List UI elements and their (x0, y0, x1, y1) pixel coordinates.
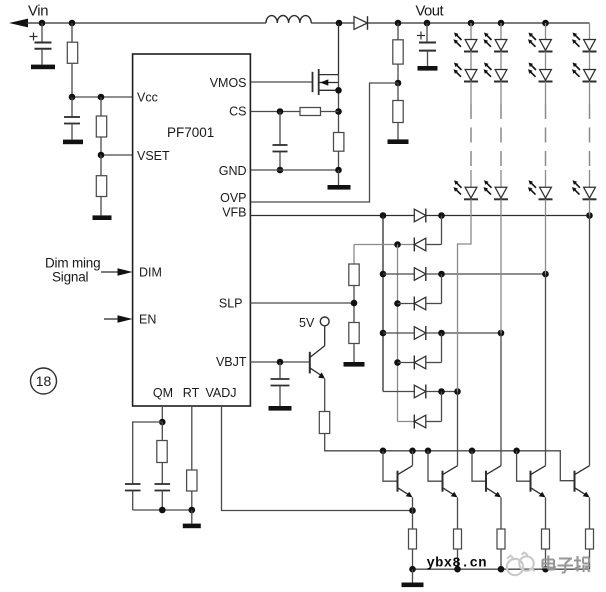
junction VADJ emitter (409, 507, 416, 514)
wire row3 (383, 273, 414, 275)
junction source (335, 87, 342, 94)
junction rail col3 (542, 20, 549, 27)
wire Vin rail (42, 22, 266, 24)
ground emitter bus (402, 569, 424, 587)
svg-text:Signal: Signal (52, 270, 89, 285)
junction VFB col4 (586, 212, 593, 219)
diode D2 (414, 209, 426, 223)
junction D6 out (438, 330, 445, 337)
wire row7 (383, 391, 414, 393)
resistor R13e (586, 497, 594, 569)
svg-text:Dim ming: Dim ming (45, 256, 100, 271)
watermark ybx8.cn (427, 556, 487, 572)
wire source column (338, 75, 340, 133)
junction RT ground (189, 507, 196, 514)
junction railA row5 (380, 330, 387, 337)
diode D3 (414, 238, 426, 252)
resistor R11e (497, 497, 505, 569)
wire row4 (398, 303, 415, 305)
resistor R8 (319, 379, 329, 434)
wire col1 jog (458, 199, 472, 391)
wire col1 dashed (470, 104, 472, 170)
wire col4 (589, 170, 591, 187)
pin SLP label (219, 297, 243, 311)
wire col2 (500, 170, 502, 187)
wire base4 drop (517, 451, 531, 481)
wire VMOS gate (250, 81, 312, 83)
wire RT (191, 406, 193, 470)
pin VMOS label (210, 76, 247, 90)
pin RT label (183, 386, 200, 400)
wire Vout rail (368, 22, 590, 24)
junction drain node (336, 20, 343, 27)
svg-text:VADJ: VADJ (205, 386, 236, 400)
junction Vout-C4 (424, 20, 431, 27)
pin VADJ label (205, 386, 236, 400)
wire VBJT (250, 361, 309, 363)
capacitor C5 (271, 362, 290, 406)
capacitor C3 (273, 112, 288, 171)
wire col3 (545, 52, 547, 70)
node 5V label (299, 316, 315, 330)
svg-text:18: 18 (36, 373, 52, 389)
wire CS (250, 111, 300, 113)
svg-text:EN: EN (139, 313, 156, 327)
wire D5 riser (426, 274, 442, 304)
junction D8 out (438, 388, 445, 395)
junction gbus2 (454, 566, 461, 573)
junction rail col1 (468, 20, 475, 27)
LED D21 (454, 63, 479, 82)
wire L1 to D1 (311, 22, 354, 24)
junction Vin-R1 (69, 20, 76, 27)
resistor R12 (187, 470, 197, 510)
input arrow terminal (9, 19, 42, 28)
watermark ezb text (543, 556, 590, 573)
junction C3-GND (277, 167, 284, 174)
resistor R1 (67, 23, 77, 97)
diode D4 (414, 267, 426, 281)
LED D33 (528, 180, 553, 199)
pin VSET label (137, 149, 170, 163)
pin QM label (153, 386, 173, 400)
resistor R12e (542, 497, 550, 569)
wire VSET (101, 154, 133, 156)
wire rail A (382, 216, 384, 392)
junction VFB-railA (380, 212, 387, 219)
wire Vcc (72, 96, 133, 98)
pin CS label (229, 105, 246, 119)
junction QM-RT ground (159, 507, 166, 514)
junction bus base2 (425, 448, 432, 455)
resistor R5 (334, 133, 344, 171)
wire col3 (545, 82, 547, 105)
junction rail col2 (498, 20, 505, 27)
U1 part label (167, 125, 214, 140)
wire row6 (398, 362, 415, 364)
svg-text:OVP: OVP (220, 191, 246, 205)
wire Q4 collector riser (500, 333, 502, 466)
junction railB row2 (394, 241, 401, 248)
resistor R3 (96, 155, 106, 215)
junction SLP (351, 300, 358, 307)
junction Vin-C1 (39, 20, 46, 27)
node Vout label (416, 4, 444, 20)
pin VFB label (222, 206, 246, 220)
junction row5 col2 (498, 330, 505, 337)
wire SLP (250, 302, 354, 304)
wire col4 (589, 82, 591, 105)
wire VFB to col4 (426, 215, 590, 217)
wire col1 (470, 170, 472, 187)
wire col4 dashed (589, 104, 591, 170)
wire row7 to col1 (426, 391, 458, 393)
pin GND label (219, 164, 247, 178)
diode D8 (414, 385, 426, 399)
svg-text:SLP: SLP (219, 297, 243, 311)
wire row2 (354, 244, 414, 246)
transistor Q5 (531, 466, 546, 498)
wire rail B (397, 245, 399, 422)
transistor Q4 (486, 466, 501, 498)
wire QM (161, 406, 163, 422)
transistor Q1 MOSFET (313, 69, 339, 95)
svg-text:VMOS: VMOS (210, 76, 247, 90)
wire VADJ (222, 406, 413, 511)
svg-text:Vout: Vout (416, 4, 444, 20)
wire emitter ground bus (413, 568, 590, 570)
wire Q6 collector riser (589, 216, 591, 466)
node Dimming Signal label (45, 256, 100, 285)
inductor L1 (266, 16, 311, 23)
junction gbus4 (542, 566, 549, 573)
wire GND pin (250, 169, 338, 171)
wire col2 lower (500, 199, 502, 333)
svg-text:VBJT: VBJT (216, 355, 247, 369)
junction QM (159, 419, 166, 426)
wire DIM arrow (101, 268, 133, 276)
LED D31 (454, 180, 479, 199)
wire col1 top (470, 23, 472, 39)
wire Q3 collector riser (457, 392, 459, 466)
LED D14 (572, 33, 597, 52)
junction D2 out (438, 212, 445, 219)
ground C5 (269, 406, 292, 411)
pin OVP label (220, 191, 246, 205)
capacitor C6 branch (125, 422, 162, 510)
wire EN arrow (104, 315, 133, 323)
wire D3 to riser (426, 216, 442, 245)
junction railB row6 (394, 359, 401, 366)
ground SLP chain (344, 362, 365, 367)
LED D32 (484, 180, 509, 199)
LED D11 (454, 33, 479, 52)
svg-text:Vin: Vin (28, 4, 48, 20)
junction VBJT-C5 (277, 359, 284, 366)
junction bus T1 collector (409, 448, 416, 455)
resistor R4 (300, 108, 339, 116)
wire row5 to col2 (426, 332, 501, 334)
ground R7 (388, 139, 409, 144)
wire QM bottom (133, 509, 192, 511)
pin DIM label (139, 266, 162, 280)
wire col2 dashed (500, 104, 502, 170)
svg-text:PF7001: PF7001 (167, 125, 214, 140)
wire row8 (398, 421, 415, 423)
transistor Q2 (398, 466, 413, 498)
svg-text:VFB: VFB (222, 206, 246, 220)
LED D24 (572, 63, 597, 82)
diode D5 (414, 297, 426, 311)
junction GND node (335, 167, 342, 174)
junction Vout-R6 (395, 20, 402, 27)
wire col1 (470, 52, 472, 70)
LED D23 (528, 63, 553, 82)
wire drain (338, 23, 340, 75)
wire Q5 collector riser (545, 274, 547, 466)
wire base3 drop (472, 451, 486, 481)
transistor Q3 (443, 466, 458, 498)
junction CS-C3 (277, 108, 284, 115)
wire base bus (325, 434, 575, 481)
junction row3 col3 (542, 271, 549, 278)
diode D6 (414, 326, 426, 340)
svg-text:Vcc: Vcc (137, 91, 158, 105)
diode D7 (414, 356, 426, 370)
pin VBJT label (216, 355, 247, 369)
svg-text:GND: GND (219, 164, 247, 178)
capacitor C2 (64, 97, 80, 140)
wire OVP link (250, 83, 398, 202)
diode D9 (414, 415, 426, 429)
resistor R10e (454, 497, 462, 569)
junction railA row3 (380, 271, 387, 278)
LED D22 (484, 63, 509, 82)
resistor R11 (157, 422, 167, 463)
junction gbus1 (409, 566, 416, 573)
wire col4 lower (589, 199, 591, 215)
watermark logo (507, 552, 535, 575)
svg-text:5V: 5V (299, 316, 315, 330)
junction Vcc-C2 (69, 94, 76, 101)
junction bus base1 (380, 448, 387, 455)
resistor R6 (393, 23, 403, 83)
wire D7 riser (426, 333, 442, 363)
ground R3 (93, 215, 112, 220)
ground C4 (418, 66, 438, 71)
transistor Q0 VBJT (310, 326, 325, 379)
junction gbus3 (498, 566, 505, 573)
svg-text:QM: QM (153, 386, 173, 400)
LED D34 (572, 180, 597, 199)
capacitor C7 (155, 463, 171, 511)
wire col2 top (500, 23, 502, 39)
resistor R9 (409, 497, 417, 569)
ground GND pin (328, 170, 351, 190)
svg-text:DIM: DIM (139, 266, 162, 280)
wire col3 top (545, 23, 547, 39)
diode D1 (354, 16, 368, 30)
figure number 18 (31, 368, 57, 394)
wire row5 (383, 332, 414, 334)
wire Q2 collector riser (412, 451, 414, 466)
junction CS sense (335, 108, 342, 115)
wire col2 (500, 52, 502, 70)
op-amp U1 PF7001 box (133, 54, 251, 406)
resistor R7 (393, 83, 403, 139)
node 5V terminal (320, 317, 329, 326)
wire col3 dashed (545, 104, 547, 170)
wire col4 top (589, 23, 591, 39)
svg-text:CS: CS (229, 105, 246, 119)
junction bus base4 (513, 448, 520, 455)
wire col3 (545, 170, 547, 187)
transistor Q6 (575, 466, 590, 498)
wire col4 (589, 52, 591, 70)
wire base1 drop (383, 451, 398, 481)
ground C2 (63, 140, 83, 145)
wire VFB (250, 215, 414, 217)
svg-text:ybx8.cn: ybx8.cn (427, 556, 487, 572)
junction bus base3 (469, 448, 476, 455)
junction Vcc-R2 (98, 94, 105, 101)
ground RT (183, 510, 201, 528)
pin EN label (139, 313, 156, 327)
junction railB row4 (394, 300, 401, 307)
pin Vcc label (137, 91, 158, 105)
LED D13 (528, 33, 553, 52)
capacitor C4 electrolytic (417, 23, 436, 66)
wire D9 riser (426, 392, 442, 422)
junction VSET (98, 152, 105, 159)
LED D12 (484, 33, 509, 52)
wire base2 drop (428, 451, 443, 481)
wire col1 (470, 82, 472, 105)
resistor R14 (349, 323, 359, 363)
svg-text:RT: RT (183, 386, 200, 400)
wire row3 to col3 (426, 273, 546, 275)
junction row7 col1 (454, 388, 461, 395)
capacitor C1 electrolytic (30, 23, 52, 65)
svg-text:VSET: VSET (137, 149, 170, 163)
wire col3 lower (545, 199, 547, 274)
ground C1 (31, 65, 55, 70)
resistor R2 (96, 97, 106, 155)
resistor R13 (349, 245, 359, 323)
junction D4 out (438, 271, 445, 278)
wire col2 (500, 82, 502, 105)
node Vin label (28, 4, 48, 20)
junction OVP divider (395, 80, 402, 87)
